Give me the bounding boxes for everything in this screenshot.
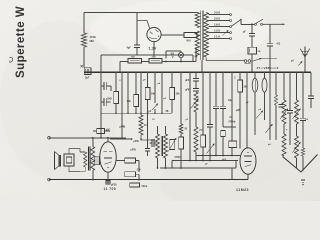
svg-text:200: 200 <box>214 17 221 21</box>
svg-text:µF50: µF50 <box>134 141 140 143</box>
svg-text:11M23: 11M23 <box>236 188 249 192</box>
wire v247 <box>246 72 248 148</box>
ground bus <box>49 179 248 181</box>
trimmer arrow d5 <box>266 124 273 133</box>
coil L2 <box>139 115 143 135</box>
transformer T1 core <box>200 11 202 61</box>
wire v116 bottom <box>115 104 117 114</box>
resistor R11 <box>238 80 243 92</box>
svg-text:10µ: 10µ <box>228 100 233 102</box>
wire grid feed <box>110 138 132 140</box>
capacitor C10 <box>213 105 219 107</box>
bus B+ horizontal <box>84 71 311 73</box>
wire mains cap drop <box>251 24 253 33</box>
svg-text:µF88: µF88 <box>185 90 191 92</box>
field coil box <box>64 154 74 166</box>
capacitor C18 <box>300 117 306 119</box>
wire v155 top <box>154 72 156 103</box>
svg-text:174Ω: 174Ω <box>90 36 96 39</box>
wire v232 gnd <box>231 168 233 180</box>
svg-text:4B: 4B <box>166 110 169 113</box>
IF1 coil a <box>156 134 160 158</box>
wire primary stubs <box>80 151 85 153</box>
resistor R9 <box>201 135 206 147</box>
wire L4 to R8 <box>180 134 182 137</box>
svg-text:7B: 7B <box>258 51 261 53</box>
wire v276 top <box>275 72 277 95</box>
speaker magnet bar <box>59 155 61 166</box>
line y155 dots <box>202 155 204 157</box>
RF coil B bottom <box>295 136 299 158</box>
antenna symbol <box>300 49 305 57</box>
wire R13 out <box>136 160 140 162</box>
wire L1 to bus <box>83 47 85 68</box>
wire stub y127 <box>223 126 236 128</box>
wire v290 bottom <box>289 113 291 145</box>
wire antenna drop <box>304 57 306 72</box>
junction mains cap <box>251 23 253 25</box>
wire transformer heater stub <box>195 47 197 62</box>
wire v240 bottom <box>239 92 241 149</box>
mains switch S1 <box>255 23 257 25</box>
trimmer arrow d2 <box>191 99 199 109</box>
wire v303 mid <box>302 121 304 148</box>
wire line y168 <box>160 167 236 169</box>
wire b1 down <box>222 137 224 156</box>
wire v116 top <box>115 72 117 91</box>
svg-text:15Ω: 15Ω <box>131 57 135 59</box>
terminal bottom <box>48 178 51 181</box>
wire R8 down <box>180 149 182 168</box>
wire v147 bottom <box>147 100 149 114</box>
resistor R16 <box>229 141 237 148</box>
svg-text:1,2V: 1,2V <box>149 47 158 51</box>
wire v232 <box>231 72 233 141</box>
wire v210 bottom <box>209 127 211 161</box>
cathode cap blob <box>106 181 110 185</box>
wire v290 top <box>289 72 291 110</box>
wire heater line B <box>120 61 196 63</box>
pilot lamp P1 <box>178 52 183 57</box>
svg-text:160: 160 <box>214 23 221 27</box>
wire v216 top <box>215 72 217 106</box>
terminal top <box>48 137 51 140</box>
antenna coil L1 <box>81 33 86 47</box>
wire grid line <box>49 137 126 139</box>
IF1 trimmer <box>170 140 175 150</box>
capacitor C11 <box>151 139 153 147</box>
osc coil L6 <box>194 127 198 152</box>
RF coil A bottom <box>282 134 286 156</box>
resistor R8 <box>179 137 184 149</box>
wire top horizontal <box>84 12 196 14</box>
wire T1 secondary to switch <box>206 58 244 61</box>
wire L6 bottom <box>195 152 197 161</box>
voltage selector arm <box>232 19 242 26</box>
transformer T1 secondary <box>204 13 209 58</box>
ground bus dots <box>92 179 94 181</box>
svg-text:540∗: 540∗ <box>142 185 148 188</box>
wire V2 top <box>107 138 109 142</box>
resistor R6 <box>145 88 150 100</box>
wire v128 <box>127 72 129 113</box>
component small box b1 <box>221 131 225 137</box>
capacitor C2 <box>134 44 140 46</box>
svg-text:4,8: 4,8 <box>170 52 174 56</box>
wire v210 top <box>209 72 211 124</box>
RF coil B link <box>296 124 298 136</box>
wire v223 top <box>222 72 224 106</box>
wire lamp stubs <box>180 51 182 52</box>
transformer T1 primary bottom <box>195 31 199 57</box>
wire C15 down <box>222 109 224 127</box>
capacitor C7 <box>193 78 199 80</box>
wire stub v236 <box>235 161 237 169</box>
output transformer primary <box>84 152 87 167</box>
svg-text:Z7∼V880∼LZ: Z7∼V880∼LZ <box>257 66 279 70</box>
wire E3 down <box>264 92 266 120</box>
wire line y155 <box>196 155 240 157</box>
svg-text:3µF: 3µF <box>85 77 90 80</box>
wire v240 top <box>239 72 241 80</box>
tube V4 envelope <box>240 148 256 174</box>
component small box b2 <box>130 183 140 187</box>
wire v101 <box>100 55 102 138</box>
wire field bottom elbow <box>69 166 80 172</box>
capacitor C4 <box>267 43 273 45</box>
line y160 dots <box>189 160 191 162</box>
bus junction dots <box>100 71 102 73</box>
grid line dots <box>92 137 94 139</box>
svg-text:1M2: 1M2 <box>107 97 112 100</box>
wire v141 <box>140 72 142 115</box>
wire v172 top <box>171 72 173 87</box>
svg-text:10k: 10k <box>127 100 132 103</box>
svg-text:Superette W: Superette W <box>15 6 27 78</box>
svg-text:4µF: 4µF <box>127 47 132 50</box>
wire V2 anode <box>116 160 124 162</box>
wire V1 cathode down <box>153 42 155 55</box>
wire coil B to V <box>296 158 298 168</box>
wire v122 <box>121 72 123 138</box>
transformer voltage taps <box>209 14 230 16</box>
svg-text:125: 125 <box>214 29 221 33</box>
resistor R5 <box>134 95 139 107</box>
wire S2 arrow <box>252 58 262 61</box>
wire corner drop x193 <box>192 55 194 62</box>
coil L4 <box>179 124 183 134</box>
wire v181 top <box>180 72 182 124</box>
wire L7 to V <box>302 156 304 170</box>
resistor R1 <box>184 33 197 38</box>
wire line y160 <box>172 160 238 162</box>
capacitor C3 <box>249 33 255 35</box>
wire V2 bottom <box>107 172 109 179</box>
wire L5 link <box>195 112 197 127</box>
wire E1 to bus <box>251 54 253 72</box>
tube V1 electrodes <box>150 32 153 34</box>
trimmer arrow d1 <box>152 103 158 110</box>
page mark squiggle <box>10 57 13 62</box>
antenna hook arrow <box>298 61 302 65</box>
wire v136 top <box>135 72 137 94</box>
resistor R14 <box>125 172 136 177</box>
electrolytic E1 <box>248 47 256 54</box>
resistor R2 <box>128 58 142 63</box>
capacitor C5 grid <box>103 82 105 90</box>
wire selector to switch <box>240 19 242 24</box>
trimmer arrow d8 <box>293 109 301 120</box>
wire v190 <box>189 72 191 160</box>
wire v270 mid <box>269 72 271 140</box>
wire C4 to bus <box>269 46 271 72</box>
svg-text:µF4B: µF4B <box>120 125 126 128</box>
RF coil B top <box>296 72 298 100</box>
RF coil A link <box>283 124 285 134</box>
IF1 coil b <box>164 134 168 158</box>
wire into tube V1 <box>137 21 150 29</box>
tube V2 envelope <box>100 142 116 172</box>
cathode line dots <box>115 112 117 114</box>
capacitor C15 <box>220 105 226 107</box>
wire v255 top <box>254 72 256 78</box>
capacitor C9 <box>207 124 213 126</box>
wire V1 to R1 <box>161 34 184 36</box>
junction mark x <box>81 65 83 67</box>
trimmer arrow d3 <box>207 144 215 154</box>
output transformer core <box>87 147 89 171</box>
selector arrow 2 <box>223 30 229 36</box>
RF coil A top <box>283 72 285 100</box>
transformer T1 primary top <box>195 13 199 28</box>
svg-text:28Z: 28Z <box>90 40 95 43</box>
wire v303 top <box>302 72 304 118</box>
svg-text:110: 110 <box>214 35 220 39</box>
wire left drop to coil <box>83 13 85 34</box>
small coil L7 <box>301 148 304 156</box>
wire heater line A <box>101 54 193 56</box>
wire lamp top link <box>166 50 181 52</box>
wire R14 down <box>138 174 140 179</box>
wire lamp bottom <box>180 58 182 62</box>
wire v162 <box>161 72 163 113</box>
wire mains out <box>263 23 285 25</box>
wire v311 bottom <box>310 98 312 108</box>
svg-text:30Ω: 30Ω <box>152 57 156 59</box>
osc coil L5 <box>194 92 198 112</box>
wire L2 bottom <box>141 135 155 140</box>
tube V4 electrodes <box>244 155 252 157</box>
wire v264 top <box>264 72 266 78</box>
svg-text:µF50: µF50 <box>131 149 137 151</box>
wire drop x137 <box>136 13 138 45</box>
trimmer arrow d4 <box>256 111 263 119</box>
wire v155 bottom <box>154 109 156 113</box>
wire branch x270 <box>269 24 271 43</box>
line y168 dots <box>165 167 167 169</box>
capacitor C6 grid <box>103 98 105 106</box>
svg-text:W 8: W 8 <box>187 40 192 43</box>
resistor R7 <box>170 88 175 100</box>
capacitor C13 <box>287 110 293 112</box>
wire E2 down <box>254 92 256 135</box>
tube V1 envelope <box>147 27 161 41</box>
small coil L8 <box>274 95 277 105</box>
wire C2 down <box>136 47 138 55</box>
svg-text:20k: 20k <box>176 93 181 96</box>
tone switch S2 <box>244 60 247 63</box>
wire heater drop to bus <box>119 62 121 73</box>
IF1 stubs top <box>157 126 159 134</box>
wire T1 top stub <box>196 12 198 14</box>
svg-text:µF40: µF40 <box>185 79 191 82</box>
capacitor C12 box <box>95 157 100 165</box>
capacitor C16 <box>145 148 150 150</box>
wire stub v172b <box>171 161 173 169</box>
capacitor C8 <box>193 87 199 89</box>
wire v136 bottom <box>135 107 137 114</box>
wire C7 to C8 <box>195 81 197 88</box>
wire v196 top <box>195 72 197 78</box>
wire V4 bottom <box>247 174 249 179</box>
electrolytic E3 <box>262 78 267 92</box>
svg-text:4 B: 4 B <box>277 43 281 46</box>
svg-text:V: V <box>172 55 174 59</box>
trimmer arrow d7 <box>293 142 301 153</box>
wire v216 bottom <box>215 109 217 156</box>
resistor R15 <box>97 129 105 134</box>
IF1 stubs bottom <box>157 158 159 168</box>
wire v172 bottom <box>171 100 173 114</box>
capacitor C17 <box>279 104 284 106</box>
wire v147 top <box>147 72 149 87</box>
resistor R3 <box>149 58 162 63</box>
wire secondary bottom <box>92 171 94 180</box>
wire secondary top <box>92 138 94 147</box>
output transformer secondary <box>91 147 95 171</box>
wire C3 down <box>251 36 253 47</box>
tube V2 electrodes <box>103 151 106 153</box>
IF1 core <box>160 136 162 156</box>
resistor R4 <box>114 92 119 104</box>
wire v311 top <box>310 72 312 95</box>
speaker cone <box>54 152 56 170</box>
capacitor C14 <box>308 95 314 97</box>
frame aerial V <box>283 155 318 173</box>
svg-text:220: 220 <box>214 11 221 15</box>
ground marks below V <box>301 179 305 181</box>
resistor R13 <box>125 158 136 163</box>
wire v276 bottom <box>275 105 277 140</box>
cathode line <box>101 112 172 114</box>
svg-text:11 709: 11 709 <box>104 187 117 191</box>
capacitor C1 block <box>84 68 91 75</box>
wire v203 <box>202 72 204 135</box>
wire T1 core to bus <box>201 60 203 72</box>
wire R9 down <box>202 147 204 161</box>
wire R1 to transformer <box>197 34 200 36</box>
electrolytic E2 <box>252 78 258 92</box>
wire field top elbow <box>69 149 80 154</box>
svg-text:µ2B: µ2B <box>236 110 241 112</box>
trimmer arrow d6 <box>280 109 288 120</box>
